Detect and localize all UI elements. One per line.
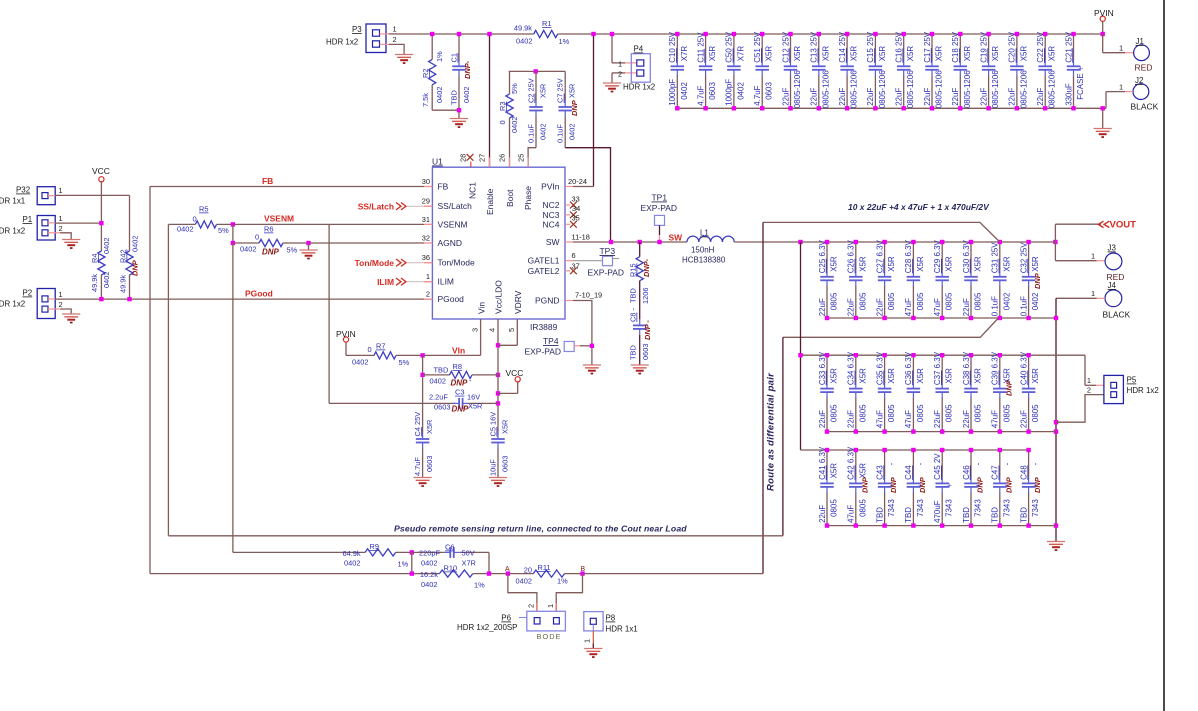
svg-text:0603: 0603 bbox=[641, 344, 650, 360]
svg-text:X7R: X7R bbox=[462, 559, 476, 568]
svg-text:0402: 0402 bbox=[568, 124, 577, 140]
svg-text:10 x 22uF +4 x 47uF + 1 x 470u: 10 x 22uF +4 x 47uF + 1 x 470uF/2V bbox=[848, 202, 990, 212]
svg-text:R1: R1 bbox=[542, 19, 551, 28]
svg-text:C6: C6 bbox=[445, 543, 454, 552]
svg-text:GATEL2: GATEL2 bbox=[528, 266, 560, 276]
svg-text:X5R: X5R bbox=[1031, 256, 1040, 272]
svg-text:C48: C48 bbox=[1019, 465, 1028, 480]
svg-text:VCC: VCC bbox=[506, 368, 524, 378]
svg-text:X5R: X5R bbox=[974, 256, 983, 272]
svg-text:33: 33 bbox=[572, 195, 580, 204]
svg-text:35: 35 bbox=[572, 214, 580, 223]
svg-text:0805: 0805 bbox=[830, 404, 839, 422]
svg-text:X5R: X5R bbox=[830, 368, 839, 384]
svg-text:0805-1206: 0805-1206 bbox=[1019, 70, 1028, 109]
svg-text:R9: R9 bbox=[370, 542, 379, 551]
svg-text:2.2uF: 2.2uF bbox=[429, 392, 448, 401]
svg-text:Ton/Mode: Ton/Mode bbox=[438, 258, 475, 268]
svg-text:TP3: TP3 bbox=[600, 246, 616, 256]
svg-text:X5R: X5R bbox=[945, 368, 954, 384]
svg-text:C46: C46 bbox=[962, 465, 971, 480]
svg-text:0805: 0805 bbox=[887, 404, 896, 422]
svg-text:0805: 0805 bbox=[1031, 404, 1040, 422]
svg-text:C45 2V: C45 2V bbox=[933, 453, 942, 480]
svg-text:HCB138380: HCB138380 bbox=[682, 256, 726, 265]
svg-text:C31 25V: C31 25V bbox=[991, 242, 1000, 274]
svg-text:BODE: BODE bbox=[537, 632, 562, 641]
svg-text:NC1: NC1 bbox=[468, 182, 478, 199]
svg-text:Ton/Mode: Ton/Mode bbox=[355, 258, 395, 268]
svg-text:EXP-PAD: EXP-PAD bbox=[525, 347, 562, 357]
svg-text:22uF: 22uF bbox=[810, 88, 819, 106]
svg-text:1: 1 bbox=[583, 639, 592, 643]
svg-text:4.7uF: 4.7uF bbox=[696, 85, 705, 105]
svg-text:P1: P1 bbox=[23, 215, 33, 224]
svg-text:0402: 0402 bbox=[736, 82, 745, 100]
svg-text:22uF: 22uF bbox=[923, 88, 932, 106]
svg-text:0805: 0805 bbox=[916, 292, 925, 310]
svg-text:1: 1 bbox=[1087, 376, 1091, 385]
svg-text:0.1uF: 0.1uF bbox=[1019, 296, 1028, 316]
svg-text:-: - bbox=[1031, 462, 1040, 465]
svg-text:SS/Latch: SS/Latch bbox=[438, 201, 473, 211]
svg-text:X5R: X5R bbox=[830, 463, 839, 479]
svg-text:J3: J3 bbox=[1108, 244, 1117, 253]
svg-text:22uF: 22uF bbox=[818, 505, 827, 523]
svg-text:X5R: X5R bbox=[945, 256, 954, 272]
svg-text:DNP: DNP bbox=[262, 248, 279, 257]
svg-text:47uF: 47uF bbox=[875, 410, 884, 428]
svg-text:AGND: AGND bbox=[438, 238, 462, 248]
svg-text:HDR 1x2: HDR 1x2 bbox=[0, 227, 26, 236]
svg-text:0805-1206: 0805-1206 bbox=[793, 70, 802, 109]
svg-text:J4: J4 bbox=[1108, 281, 1117, 290]
svg-text:0402: 0402 bbox=[1002, 292, 1011, 310]
svg-text:16.2k: 16.2k bbox=[420, 570, 438, 579]
svg-text:7343: 7343 bbox=[887, 499, 896, 517]
svg-text:J2: J2 bbox=[1135, 76, 1144, 85]
svg-text:0.1uF: 0.1uF bbox=[556, 124, 565, 143]
svg-text:0805: 0805 bbox=[1002, 404, 1011, 422]
svg-text:7.5k: 7.5k bbox=[421, 93, 430, 107]
svg-text:1%: 1% bbox=[474, 581, 485, 590]
svg-text:7343: 7343 bbox=[1031, 499, 1040, 517]
svg-text:IR3889: IR3889 bbox=[530, 322, 558, 332]
svg-text:22uF: 22uF bbox=[866, 88, 875, 106]
svg-text:DNP: DNP bbox=[1004, 380, 1013, 396]
svg-text:DNP: DNP bbox=[1004, 477, 1013, 493]
svg-text:C32 25V: C32 25V bbox=[1019, 242, 1028, 274]
svg-text:0805: 0805 bbox=[945, 292, 954, 310]
svg-text:C30 6.3V: C30 6.3V bbox=[962, 239, 971, 273]
svg-text:R7: R7 bbox=[376, 342, 385, 351]
svg-text:0402: 0402 bbox=[516, 577, 532, 586]
svg-text:X5R: X5R bbox=[858, 368, 867, 384]
svg-text:R5: R5 bbox=[199, 205, 208, 214]
svg-text:0402: 0402 bbox=[516, 37, 532, 46]
svg-text:ILIM: ILIM bbox=[377, 277, 394, 287]
svg-text:U1: U1 bbox=[432, 157, 443, 167]
svg-text:0402: 0402 bbox=[430, 377, 446, 386]
svg-text:P4: P4 bbox=[634, 45, 644, 54]
svg-text:DNP-: DNP- bbox=[463, 60, 472, 79]
svg-text:X5R: X5R bbox=[887, 256, 896, 272]
svg-text:0.1uF: 0.1uF bbox=[991, 296, 1000, 316]
svg-text:0805-1206: 0805-1206 bbox=[1048, 70, 1057, 109]
svg-text:X7R: X7R bbox=[736, 46, 745, 62]
svg-text:0805: 0805 bbox=[945, 404, 954, 422]
svg-text:DNP: DNP bbox=[976, 477, 985, 493]
svg-text:2: 2 bbox=[1087, 386, 1091, 395]
svg-text:EXP-PAD: EXP-PAD bbox=[588, 268, 625, 278]
svg-text:X5R: X5R bbox=[821, 46, 830, 62]
svg-text:PGood: PGood bbox=[245, 289, 273, 299]
svg-text:TBD: TBD bbox=[629, 288, 638, 303]
svg-text:TBD: TBD bbox=[1019, 507, 1028, 523]
svg-text:50V: 50V bbox=[462, 549, 475, 558]
svg-text:B: B bbox=[581, 566, 586, 573]
svg-text:X5R: X5R bbox=[850, 46, 859, 62]
svg-text:22uF: 22uF bbox=[962, 410, 971, 428]
svg-text:FB: FB bbox=[262, 176, 273, 186]
svg-text:1: 1 bbox=[59, 290, 63, 299]
svg-text:R10: R10 bbox=[444, 564, 458, 573]
svg-text:0805: 0805 bbox=[916, 404, 925, 422]
svg-text:X5R: X5R bbox=[765, 46, 774, 62]
svg-text:R6: R6 bbox=[264, 225, 273, 234]
svg-text:1%: 1% bbox=[435, 51, 444, 62]
svg-text:22uF: 22uF bbox=[781, 88, 790, 106]
svg-text:C1: C1 bbox=[450, 53, 459, 62]
svg-text:16V: 16V bbox=[467, 392, 480, 401]
svg-text:HDR 1x2: HDR 1x2 bbox=[1127, 386, 1160, 395]
svg-text:VIn: VIn bbox=[452, 346, 465, 356]
svg-text:0805: 0805 bbox=[974, 292, 983, 310]
svg-text:DNP-: DNP- bbox=[642, 258, 651, 277]
svg-text:28: 28 bbox=[459, 154, 468, 162]
svg-text:10uF: 10uF bbox=[489, 459, 498, 476]
svg-text:4.7uF: 4.7uF bbox=[753, 85, 762, 105]
svg-text:4: 4 bbox=[488, 328, 497, 332]
svg-text:R11: R11 bbox=[538, 563, 551, 572]
svg-text:7343: 7343 bbox=[974, 499, 983, 517]
svg-text:0805-1206: 0805-1206 bbox=[906, 70, 915, 109]
svg-text:6: 6 bbox=[572, 251, 576, 260]
svg-text:P8: P8 bbox=[606, 614, 616, 623]
svg-text:PGND: PGND bbox=[535, 296, 559, 306]
svg-text:0.1uF: 0.1uF bbox=[527, 124, 536, 143]
svg-text:47uF: 47uF bbox=[847, 505, 856, 523]
svg-text:TP4: TP4 bbox=[543, 336, 559, 346]
svg-text:-: - bbox=[887, 462, 896, 465]
svg-text:2: 2 bbox=[59, 300, 63, 309]
svg-text:0805: 0805 bbox=[830, 499, 839, 517]
svg-text:0603: 0603 bbox=[434, 403, 450, 412]
svg-text:DNP: DNP bbox=[570, 100, 579, 116]
svg-text:5%: 5% bbox=[510, 83, 519, 94]
svg-text:C4 25V: C4 25V bbox=[413, 412, 422, 437]
svg-text:7-10_19: 7-10_19 bbox=[575, 291, 602, 300]
svg-text:47uF: 47uF bbox=[991, 410, 1000, 428]
svg-text:220pF: 220pF bbox=[419, 549, 440, 558]
svg-text:FB: FB bbox=[438, 182, 449, 192]
svg-text:22uF: 22uF bbox=[1008, 88, 1017, 106]
svg-text:11-18: 11-18 bbox=[572, 233, 590, 242]
svg-text:PVIN: PVIN bbox=[1094, 8, 1114, 18]
svg-text:22uF: 22uF bbox=[1019, 410, 1028, 428]
svg-text:DNP: DNP bbox=[1033, 273, 1042, 289]
svg-text:5: 5 bbox=[507, 328, 516, 332]
svg-text:22uF: 22uF bbox=[818, 298, 827, 316]
svg-text:25: 25 bbox=[517, 154, 526, 162]
svg-text:SW: SW bbox=[546, 237, 560, 247]
svg-text:0805-1206: 0805-1206 bbox=[963, 70, 972, 109]
svg-text:30: 30 bbox=[422, 177, 430, 186]
svg-text:C44: C44 bbox=[904, 465, 913, 480]
svg-text:1%: 1% bbox=[398, 560, 409, 569]
svg-text:1: 1 bbox=[1091, 289, 1095, 298]
svg-text:0603: 0603 bbox=[765, 82, 774, 100]
svg-text:22uF: 22uF bbox=[962, 298, 971, 316]
svg-text:C8 -: C8 - bbox=[629, 307, 638, 322]
svg-text:0805-1206: 0805-1206 bbox=[935, 70, 944, 109]
svg-text:26: 26 bbox=[498, 154, 507, 162]
svg-text:4.7uF: 4.7uF bbox=[413, 457, 422, 476]
svg-text:0402: 0402 bbox=[240, 245, 256, 254]
svg-text:5%: 5% bbox=[399, 358, 410, 367]
svg-text:VSENM: VSENM bbox=[264, 214, 294, 224]
svg-text:C26 6.3V: C26 6.3V bbox=[847, 239, 856, 273]
svg-text:1: 1 bbox=[426, 272, 430, 281]
svg-text:PVIN: PVIN bbox=[336, 329, 356, 339]
svg-text:C28 6.3V: C28 6.3V bbox=[904, 239, 913, 273]
svg-text:X5R: X5R bbox=[1002, 256, 1011, 272]
svg-text:A: A bbox=[505, 566, 510, 573]
svg-text:0402: 0402 bbox=[102, 272, 111, 288]
svg-text:0805-1206: 0805-1206 bbox=[991, 70, 1000, 109]
svg-text:R15: R15 bbox=[629, 263, 638, 277]
svg-text:0805-1206: 0805-1206 bbox=[850, 70, 859, 109]
svg-text:HDR 1x1: HDR 1x1 bbox=[606, 625, 639, 634]
svg-text:31: 31 bbox=[422, 215, 430, 224]
svg-text:C29 6.3V: C29 6.3V bbox=[933, 239, 942, 273]
svg-text:0805: 0805 bbox=[830, 292, 839, 310]
svg-text:C27 6.3V: C27 6.3V bbox=[875, 239, 884, 273]
svg-text:1%: 1% bbox=[559, 37, 570, 46]
svg-text:PGood: PGood bbox=[438, 294, 465, 304]
svg-text:R42: R42 bbox=[119, 249, 128, 263]
svg-text:DNP -: DNP - bbox=[643, 320, 652, 340]
svg-text:1206: 1206 bbox=[641, 288, 650, 304]
svg-text:22uF: 22uF bbox=[847, 298, 856, 316]
svg-text:R8: R8 bbox=[453, 362, 462, 371]
svg-text:22uF: 22uF bbox=[847, 410, 856, 428]
svg-text:0402: 0402 bbox=[539, 124, 548, 140]
svg-text:X5R: X5R bbox=[1019, 46, 1028, 62]
svg-text:NC3: NC3 bbox=[543, 210, 560, 220]
svg-text:32: 32 bbox=[422, 234, 430, 243]
svg-text:R2: R2 bbox=[421, 69, 430, 78]
svg-text:VOUT: VOUT bbox=[1110, 220, 1137, 231]
svg-text:TBD: TBD bbox=[875, 507, 884, 523]
svg-text:1000pF: 1000pF bbox=[668, 79, 677, 106]
svg-text:0: 0 bbox=[193, 215, 197, 224]
svg-text:1: 1 bbox=[618, 60, 622, 69]
svg-text:FCASE: FCASE bbox=[1076, 73, 1085, 99]
svg-text:X5R: X5R bbox=[1031, 368, 1040, 384]
svg-text:GATEL1: GATEL1 bbox=[528, 256, 560, 266]
svg-text:0603: 0603 bbox=[425, 456, 434, 472]
svg-text:+: + bbox=[947, 480, 952, 490]
svg-text:-: - bbox=[974, 462, 983, 465]
svg-text:X5R: X5R bbox=[1048, 46, 1057, 62]
svg-text:0402: 0402 bbox=[435, 87, 444, 103]
svg-text:ILIM: ILIM bbox=[438, 277, 454, 287]
svg-text:NC2: NC2 bbox=[543, 200, 560, 210]
svg-text:150nH: 150nH bbox=[691, 246, 715, 255]
svg-text:SS/Latch: SS/Latch bbox=[358, 201, 394, 211]
svg-text:X5R: X5R bbox=[916, 256, 925, 272]
svg-text:DNP: DNP bbox=[451, 379, 468, 388]
svg-text:DNP: DNP bbox=[889, 477, 898, 493]
svg-text:0805-1206: 0805-1206 bbox=[821, 70, 830, 109]
svg-text:X5R: X5R bbox=[568, 84, 577, 98]
svg-text:R3: R3 bbox=[498, 102, 507, 111]
svg-text:0402: 0402 bbox=[102, 238, 111, 254]
svg-text:0805: 0805 bbox=[858, 292, 867, 310]
svg-text:-: - bbox=[1002, 462, 1011, 465]
svg-text:C2 25V: C2 25V bbox=[527, 78, 536, 103]
svg-text:X5R: X5R bbox=[991, 46, 1000, 62]
svg-text:0402: 0402 bbox=[462, 87, 471, 103]
svg-text:HDR 1x2_200SP: HDR 1x2_200SP bbox=[457, 623, 517, 632]
svg-text:0: 0 bbox=[498, 120, 507, 124]
svg-text:0402: 0402 bbox=[177, 225, 193, 234]
svg-text:C43: C43 bbox=[875, 465, 884, 480]
svg-text:X5R: X5R bbox=[858, 463, 867, 479]
svg-text:7343: 7343 bbox=[1002, 499, 1011, 517]
svg-text:1: 1 bbox=[1091, 252, 1095, 261]
svg-text:0402: 0402 bbox=[1031, 292, 1040, 310]
svg-text:TBD: TBD bbox=[991, 507, 1000, 523]
svg-text:L1: L1 bbox=[700, 229, 709, 238]
svg-text:BLACK: BLACK bbox=[1103, 310, 1131, 320]
svg-text:0805: 0805 bbox=[858, 499, 867, 517]
svg-text:P3: P3 bbox=[352, 25, 362, 34]
svg-text:22uF: 22uF bbox=[933, 410, 942, 428]
svg-text:DNP: DNP bbox=[452, 405, 469, 414]
svg-text:2: 2 bbox=[618, 70, 622, 79]
svg-text:J1: J1 bbox=[1136, 37, 1145, 46]
svg-text:22uF: 22uF bbox=[951, 88, 960, 106]
svg-text:47uF: 47uF bbox=[904, 298, 913, 316]
svg-text:22uF: 22uF bbox=[838, 88, 847, 106]
svg-text:Enable: Enable bbox=[485, 188, 495, 215]
svg-text:Vin: Vin bbox=[477, 302, 487, 314]
svg-text:X5R: X5R bbox=[906, 46, 915, 62]
svg-text:X7R: X7R bbox=[680, 46, 689, 62]
svg-text:22uF: 22uF bbox=[1036, 88, 1045, 106]
svg-text:HDR 1x1: HDR 1x1 bbox=[0, 197, 26, 206]
svg-text:1: 1 bbox=[393, 25, 397, 34]
svg-text:VSENM: VSENM bbox=[438, 219, 468, 229]
svg-text:1: 1 bbox=[1119, 44, 1123, 53]
svg-text:Boot: Boot bbox=[505, 189, 515, 207]
svg-text:TP1: TP1 bbox=[652, 193, 668, 203]
svg-text:1: 1 bbox=[546, 604, 555, 608]
svg-text:X5R: X5R bbox=[858, 256, 867, 272]
svg-text:X5R: X5R bbox=[708, 46, 717, 62]
svg-text:RED: RED bbox=[1135, 63, 1153, 73]
svg-text:2: 2 bbox=[393, 35, 397, 44]
svg-text:TBD: TBD bbox=[434, 366, 449, 375]
svg-text:DNP: DNP bbox=[131, 260, 140, 276]
svg-text:5%: 5% bbox=[287, 246, 298, 255]
svg-text:22uF: 22uF bbox=[875, 298, 884, 316]
svg-text:PVIn: PVIn bbox=[541, 182, 560, 192]
svg-text:HDR 1x2: HDR 1x2 bbox=[623, 83, 656, 92]
svg-text:SW: SW bbox=[669, 233, 683, 243]
svg-text:0402: 0402 bbox=[352, 358, 368, 367]
svg-text:VDRV: VDRV bbox=[513, 290, 523, 314]
svg-text:2: 2 bbox=[527, 604, 536, 608]
svg-text:0402: 0402 bbox=[421, 580, 437, 589]
svg-text:HDR 1x2: HDR 1x2 bbox=[0, 300, 26, 309]
svg-text:3: 3 bbox=[471, 328, 480, 332]
svg-text:X5R: X5R bbox=[974, 368, 983, 384]
svg-text:20: 20 bbox=[524, 566, 532, 575]
svg-text:27: 27 bbox=[478, 154, 487, 162]
svg-text:C5 16V: C5 16V bbox=[489, 412, 498, 437]
svg-text:HDR 1x2: HDR 1x2 bbox=[326, 38, 359, 47]
svg-text:0402: 0402 bbox=[680, 82, 689, 100]
svg-text:47uF: 47uF bbox=[933, 298, 942, 316]
svg-text:0805: 0805 bbox=[974, 404, 983, 422]
svg-text:NC4: NC4 bbox=[543, 219, 560, 229]
svg-text:47uF: 47uF bbox=[904, 410, 913, 428]
svg-text:0402: 0402 bbox=[131, 236, 140, 252]
svg-text:Phase: Phase bbox=[523, 186, 533, 210]
svg-text:1: 1 bbox=[59, 186, 63, 195]
svg-text:TBD: TBD bbox=[629, 345, 638, 360]
svg-text:X5R: X5R bbox=[887, 368, 896, 384]
svg-text:64.9k: 64.9k bbox=[343, 549, 361, 558]
svg-text:49.9k: 49.9k bbox=[90, 274, 99, 292]
svg-text:X5R: X5R bbox=[501, 420, 510, 434]
svg-text:X5R: X5R bbox=[539, 84, 548, 98]
svg-text:330uF: 330uF bbox=[1064, 83, 1073, 106]
svg-text:0603: 0603 bbox=[708, 82, 717, 100]
svg-text:0805-1206: 0805-1206 bbox=[878, 70, 887, 109]
svg-text:VCC: VCC bbox=[92, 166, 110, 176]
svg-text:X5R: X5R bbox=[878, 46, 887, 62]
svg-text:Route as differential pair: Route as differential pair bbox=[766, 372, 777, 491]
svg-text:+: + bbox=[1078, 63, 1083, 73]
svg-text:TBD: TBD bbox=[450, 90, 459, 105]
svg-text:22uF: 22uF bbox=[979, 88, 988, 106]
svg-text:0603: 0603 bbox=[501, 456, 510, 472]
svg-text:P5: P5 bbox=[1127, 376, 1137, 385]
svg-text:C3: C3 bbox=[455, 388, 464, 397]
svg-text:C7 25V: C7 25V bbox=[556, 78, 565, 103]
svg-text:2: 2 bbox=[59, 224, 63, 233]
svg-text:1%: 1% bbox=[557, 577, 568, 586]
svg-text:TBD: TBD bbox=[962, 507, 971, 523]
svg-text:22uF: 22uF bbox=[895, 88, 904, 106]
svg-text:P32: P32 bbox=[16, 186, 31, 195]
svg-text:DNP: DNP bbox=[1033, 477, 1042, 493]
svg-text:X5R: X5R bbox=[425, 420, 434, 434]
